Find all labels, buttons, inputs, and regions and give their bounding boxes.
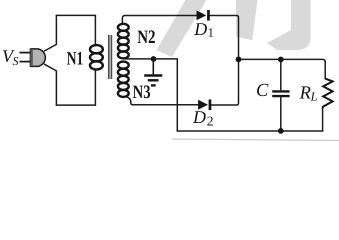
node capacitor bottom junction [278, 128, 284, 134]
wire secondary bottom lead [126, 97, 133, 105]
svg-text:S: S [13, 54, 19, 68]
label VS [2, 46, 19, 68]
label RL [299, 83, 318, 103]
wire center tap return vertical [176, 59, 178, 131]
svg-text:N2: N2 [137, 27, 155, 48]
diode D2 [198, 100, 211, 111]
svg-text:2: 2 [207, 114, 214, 129]
wire resistor top lead [324, 62, 326, 79]
wire primary lead bottom [94, 69, 96, 105]
label D1 [193, 19, 214, 40]
wire resistor bottom lead [322, 108, 324, 131]
node capacitor top junction [278, 57, 284, 63]
wire center tap horizontal [125, 58, 178, 60]
wire output node down to D2 [211, 59, 238, 105]
capacitor C [272, 91, 289, 96]
svg-text:N3: N3 [133, 82, 151, 103]
wire capacitor bottom lead [280, 97, 282, 131]
diode D1 [197, 10, 210, 21]
transformer secondary winding N2 [118, 24, 129, 59]
wire D1 cathode to output node [210, 16, 239, 60]
svg-text:L: L [310, 90, 318, 104]
wire N3 to D2 anode [133, 104, 198, 106]
wire primary top rail [56, 14, 95, 16]
label D2 [192, 107, 214, 129]
ground [144, 59, 162, 85]
wire output rail [239, 59, 326, 61]
transformer primary winding N1 [90, 45, 103, 70]
wire left vertical upper [44, 15, 56, 51]
resistor RL [323, 79, 333, 109]
source VS plug symbol [20, 49, 46, 67]
svg-text:1: 1 [208, 26, 214, 40]
wire left vertical lower [44, 64, 56, 105]
node center tap junction [151, 56, 157, 62]
wire bottom rail [177, 130, 322, 132]
node D1 output junction [236, 57, 242, 63]
wire primary bottom rail [56, 104, 95, 106]
svg-text:C: C [256, 81, 269, 101]
wire primary lead top [94, 15, 96, 45]
wire top rail to D1 anode [125, 15, 197, 17]
transformer core [109, 35, 112, 79]
svg-text:N1: N1 [67, 48, 84, 69]
wire secondary top lead [122, 16, 125, 25]
transformer secondary winding N3 [118, 62, 129, 97]
svg-text:D: D [192, 107, 206, 127]
svg-text:D: D [193, 19, 207, 39]
wire capacitor top lead [280, 60, 282, 90]
svg-text:R: R [299, 83, 311, 103]
